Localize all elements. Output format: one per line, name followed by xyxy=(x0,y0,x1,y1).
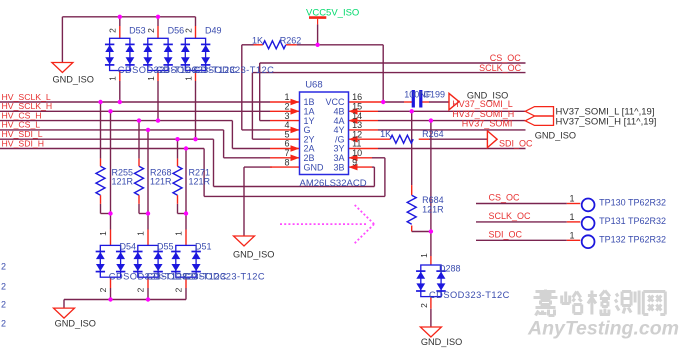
pin number 15 xyxy=(352,102,362,112)
label D54 xyxy=(120,241,137,251)
wire pin 8 GND to symbol xyxy=(244,167,272,236)
svg-text:2: 2 xyxy=(98,287,108,292)
svg-text:U68: U68 xyxy=(305,80,322,91)
label R255 xyxy=(112,168,134,178)
pin 4 stub xyxy=(270,127,300,134)
wire SDI_OC test point xyxy=(476,239,580,241)
wire bottom GND rail drop xyxy=(63,300,65,309)
pin 7 stub xyxy=(270,155,300,162)
pin 2 stub xyxy=(270,108,300,115)
pin 3 stub xyxy=(270,120,300,122)
wire R262 right segment xyxy=(286,44,383,46)
svg-text:1: 1 xyxy=(98,231,108,236)
wire pin 12 R264 right to SDI_OC arrow xyxy=(429,138,487,140)
resistor R268 xyxy=(135,159,144,204)
svg-text:1: 1 xyxy=(569,231,574,241)
pin 10 stub xyxy=(349,155,373,162)
svg-text:2: 2 xyxy=(173,287,183,292)
pin number 4 xyxy=(284,120,289,130)
pin 1 digit bottom diode xyxy=(98,231,108,236)
pin 2 digit top diode xyxy=(146,28,156,33)
test point TP130 circle xyxy=(582,199,595,212)
watermark anytesting xyxy=(527,318,679,340)
net label HV37_SOMI xyxy=(462,118,513,128)
wire pin 16 VCC to C199 xyxy=(381,101,413,103)
watermark chinese xyxy=(534,290,666,316)
wire SCLK_OC down to pin 5 xyxy=(252,73,270,140)
value CDSOD323-T12C D55 xyxy=(146,271,227,281)
wire HV_SDI_H into pin 10 xyxy=(372,157,385,159)
pin name 1A xyxy=(304,107,315,117)
diode D53 xyxy=(105,38,135,70)
diode D55 xyxy=(133,245,163,277)
wire CS_OC test point xyxy=(476,203,580,205)
label 1K R262 xyxy=(252,36,263,46)
svg-text:3B: 3B xyxy=(333,162,344,172)
pin 1 digit top diode xyxy=(146,76,156,81)
svg-text:SDI_OC: SDI_OC xyxy=(499,139,533,149)
label D51 xyxy=(195,241,212,251)
wire R262 left segment xyxy=(242,44,263,46)
svg-text:1: 1 xyxy=(173,231,183,236)
wire top GND rail drop xyxy=(61,17,63,63)
label D53 xyxy=(129,26,146,36)
label GND_ISO top left xyxy=(53,75,94,85)
svg-text:121R: 121R xyxy=(422,204,444,214)
pin number 7 xyxy=(284,148,289,158)
svg-text:VCC5V_ISO: VCC5V_ISO xyxy=(306,8,359,19)
pin 1 label TP131 xyxy=(569,212,574,222)
pin 1 digit bottom diode xyxy=(135,231,145,236)
wire HV_SCLK_L bus row to pin 1 xyxy=(0,101,270,103)
wire SCLK_OC horizontal xyxy=(252,72,525,74)
wire bottom GND rail xyxy=(64,299,186,301)
label 1K R264 xyxy=(380,129,391,139)
svg-text:HV37_SOMI_L: HV37_SOMI_L xyxy=(452,99,513,109)
label GND_ISO floating xyxy=(535,130,576,140)
svg-text:C199: C199 xyxy=(424,90,446,100)
svg-text:2: 2 xyxy=(1,282,6,292)
ground GND_ISO bottom left xyxy=(54,308,75,318)
pin 1 label TP130 xyxy=(569,194,574,204)
pin 1 digit bottom diode xyxy=(173,231,183,236)
port HV37_SOMI_H xyxy=(525,116,553,125)
svg-text:2: 2 xyxy=(108,28,118,33)
wire HV_SDI_L into pin 9 xyxy=(372,166,374,168)
wire HV_SDI_L up to pin 9 xyxy=(373,167,375,186)
svg-text:CS_OC: CS_OC xyxy=(489,193,521,203)
svg-text:D53: D53 xyxy=(129,26,146,36)
label GND_ISO mid xyxy=(233,250,274,260)
svg-text:1: 1 xyxy=(108,76,118,81)
svg-text:HV37_SOMI_H [11^,19]: HV37_SOMI_H [11^,19] xyxy=(556,116,657,127)
label GND_ISO at C199 xyxy=(467,91,508,101)
pin name 4Y xyxy=(333,125,344,135)
svg-text:121R: 121R xyxy=(189,176,211,186)
pin 1 digit top diode xyxy=(183,76,193,81)
pin number 5 xyxy=(284,129,289,139)
value CDSOD323-T12C D51 xyxy=(184,271,265,281)
wire pin 14 HV37_SOMI_H to port xyxy=(378,120,525,122)
svg-text:1: 1 xyxy=(569,194,574,204)
power VCC5V_ISO symbol xyxy=(309,18,326,25)
label D56 xyxy=(168,26,185,36)
port label HV37_SOMI_H xyxy=(556,116,657,127)
pin 1 digit top diode xyxy=(108,76,118,81)
pin number 3 xyxy=(284,111,289,121)
resistor R255 xyxy=(96,159,105,204)
label D288 xyxy=(439,263,461,273)
label D49 xyxy=(205,26,222,36)
resistor R684 xyxy=(407,195,416,224)
wire HV_CS_H vertical jog to pin 6 xyxy=(231,121,233,149)
pin name /G xyxy=(335,134,345,144)
wire VCC5V_ISO drop xyxy=(317,24,319,44)
net label HV_SCLK_H xyxy=(2,101,53,111)
svg-text:121R: 121R xyxy=(150,176,172,186)
pin name VCC xyxy=(325,97,345,107)
wire node to D288 top xyxy=(430,256,432,265)
net label HV_SDI_L xyxy=(2,129,43,139)
wire HV_SDI_H under IC xyxy=(204,195,385,197)
svg-text:D54: D54 xyxy=(120,241,137,251)
value 121R R255 xyxy=(112,176,134,186)
svg-text:GND_ISO: GND_ISO xyxy=(421,337,462,347)
svg-text:D49: D49 xyxy=(205,26,222,36)
net label SDI_OC tp xyxy=(489,230,523,240)
wire node to D54 top xyxy=(110,214,112,246)
value 121R R268 xyxy=(150,176,172,186)
value 121R R271 xyxy=(189,176,211,186)
svg-text:2: 2 xyxy=(1,319,6,329)
net label SCLK_OC upper xyxy=(479,63,522,73)
diode D288 xyxy=(416,265,446,297)
svg-text:D55: D55 xyxy=(157,241,174,251)
wire HV37_SOMI_H down through node xyxy=(430,121,432,256)
pin number 10 xyxy=(352,148,362,158)
net label CS_OC tp xyxy=(489,193,521,203)
svg-text:R264: R264 xyxy=(422,129,444,139)
op-amp U68 body xyxy=(300,92,349,175)
svg-text:2: 2 xyxy=(1,262,6,272)
svg-text:GND: GND xyxy=(304,162,325,172)
svg-text:CDSOD323-T12C: CDSOD323-T12C xyxy=(429,290,510,300)
value CDSOD323-T12C D49 xyxy=(194,65,275,75)
resistor R262 xyxy=(263,41,286,49)
pin number 8 xyxy=(284,157,289,167)
resistor R264 xyxy=(390,135,429,143)
pin 2 digit D288 xyxy=(419,303,429,308)
wire D54 bottom stub xyxy=(110,277,112,299)
test point TP131 circle xyxy=(582,217,595,230)
pin 14 stub xyxy=(349,117,379,124)
label R268 xyxy=(150,168,172,178)
pin number 12 xyxy=(352,129,362,139)
svg-text:TP130 TP62R32: TP130 TP62R32 xyxy=(599,198,666,208)
net label HV_SDI_H xyxy=(2,138,45,148)
label U68 xyxy=(305,80,322,91)
wire R684 bottom stub xyxy=(411,226,413,232)
wire HV_SDI_L bus row xyxy=(0,138,214,140)
wire R271 bottom to node xyxy=(178,204,187,214)
capacitor C199 xyxy=(413,90,421,108)
value CDSOD323-T12C D56 xyxy=(156,65,237,75)
pin number 14 xyxy=(352,111,362,121)
svg-text:GND_ISO: GND_ISO xyxy=(55,318,96,328)
pin name 3B xyxy=(333,162,344,172)
resistor R271 xyxy=(173,159,182,204)
label 100NF C199 xyxy=(404,90,432,100)
pin name 2Y xyxy=(304,134,315,144)
pin 8 stub xyxy=(270,166,300,168)
wire R255 bottom to node xyxy=(101,204,111,214)
svg-text:121R: 121R xyxy=(112,176,134,186)
label R271 xyxy=(189,168,211,178)
svg-text:1: 1 xyxy=(183,76,193,81)
svg-text:CDSOD323-T12C: CDSOD323-T12C xyxy=(194,65,275,75)
wire D51 bottom stub xyxy=(185,277,187,299)
port label HV37_SOMI_L xyxy=(556,107,655,118)
label GND_ISO below D288 xyxy=(421,337,462,347)
label R684 xyxy=(422,195,444,205)
wire tap R268 from HV_CS_H xyxy=(138,121,140,159)
wire HV_SDI_H vertical down xyxy=(203,149,205,197)
svg-text:2: 2 xyxy=(1,300,6,310)
value 121R R684 xyxy=(422,204,444,214)
svg-text:8: 8 xyxy=(284,157,289,167)
label AM26LS32ACD xyxy=(300,178,367,189)
diode D54 xyxy=(96,245,126,277)
svg-text:1: 1 xyxy=(135,231,145,236)
pin 6 stub xyxy=(270,145,300,152)
svg-text:GND_ISO: GND_ISO xyxy=(233,250,274,260)
pin name 4B xyxy=(333,107,344,117)
svg-text:AM26LS32ACD: AM26LS32ACD xyxy=(300,178,367,189)
wire HV_SCLK_H bus row to pin 2 xyxy=(0,110,270,112)
wire HV_CS_H into pin 6 xyxy=(232,148,270,150)
label VCC5V_ISO xyxy=(306,8,359,19)
wire CS_OC down to pin 3 xyxy=(260,63,270,121)
wire tap R255 from HV_SCLK_L xyxy=(100,102,102,159)
diode D56 xyxy=(143,38,173,70)
svg-text:HV37_SOMI_H: HV37_SOMI_H xyxy=(452,109,514,119)
svg-text:GND_ISO: GND_ISO xyxy=(53,75,94,85)
svg-text:D51: D51 xyxy=(195,241,212,251)
net label SCLK_OC tp xyxy=(489,211,532,221)
pin number 13 xyxy=(352,120,362,130)
net label HV_CS_L xyxy=(2,120,41,130)
wire D49 top stub xyxy=(195,17,197,39)
svg-text:D56: D56 xyxy=(168,26,185,36)
wire HV_SDI_L under IC xyxy=(214,186,375,188)
svg-text:GND_ISO: GND_ISO xyxy=(535,130,576,140)
stray pin digit 2 xyxy=(1,282,6,292)
pin name 1B xyxy=(304,97,315,107)
pin name 3A xyxy=(333,153,344,163)
pin 2 digit top diode xyxy=(183,28,193,33)
svg-text:CS_OC: CS_OC xyxy=(490,53,522,63)
wire C199 to GND arrow xyxy=(421,101,449,103)
net label SDI_OC mid xyxy=(499,139,533,149)
svg-text:SDI_OC: SDI_OC xyxy=(489,230,523,240)
stray pin digit 2 xyxy=(1,319,6,329)
wire HV_SDI_L vertical down xyxy=(213,139,215,186)
svg-text:1: 1 xyxy=(419,253,429,258)
pin name GND xyxy=(304,162,325,172)
label C199 xyxy=(424,90,446,100)
svg-text:2: 2 xyxy=(146,28,156,33)
wire top GND rail xyxy=(62,16,195,18)
pin 13 stub xyxy=(349,129,379,131)
svg-text:AnyTesting.com: AnyTesting.com xyxy=(527,318,679,340)
svg-text:9: 9 xyxy=(352,157,357,167)
diode D51 xyxy=(171,245,201,277)
svg-text:HV_SDI_H: HV_SDI_H xyxy=(2,138,45,148)
wire tap D55 from HV_CS_L xyxy=(147,130,149,214)
wire HV_SDI_H bus row xyxy=(0,148,204,150)
svg-text:TP132 TP62R32: TP132 TP62R32 xyxy=(599,235,666,245)
wire D53 top stub xyxy=(119,17,121,39)
pin number 1 xyxy=(284,92,289,102)
ground GND_ISO arrow after C199 xyxy=(449,93,459,109)
pin 2 digit top diode xyxy=(108,28,118,33)
pin name 4A xyxy=(333,116,344,126)
pin number 16 xyxy=(352,92,362,102)
svg-text:1: 1 xyxy=(569,212,574,222)
wire tap D51 from HV_SDI_H xyxy=(185,149,187,214)
svg-text:1K: 1K xyxy=(252,36,263,46)
net label HV_CS_H xyxy=(2,110,42,120)
pin number 9 xyxy=(352,157,357,167)
wire tap R271 from HV_SDI_L xyxy=(177,139,179,158)
wire D49 bottom to HV_SDI_L xyxy=(195,71,197,140)
pin number 2 xyxy=(284,102,289,112)
diode D49 xyxy=(181,38,211,70)
label D55 xyxy=(157,241,174,251)
svg-text:2: 2 xyxy=(183,28,193,33)
wire pin 13 HV37_SOMI xyxy=(378,129,526,131)
label TP131 TP62R32 xyxy=(599,216,666,226)
test point TP132 circle xyxy=(582,235,595,248)
wire R684 bottom to node xyxy=(412,231,431,233)
pin name 1Y xyxy=(304,116,315,126)
svg-text:D288: D288 xyxy=(439,263,461,273)
stray pin digit 2 xyxy=(1,300,6,310)
pin 1 digit D288 xyxy=(419,253,429,258)
wire HV_CS_L into pin 7 xyxy=(224,157,270,159)
wire R262 net down to pin 4 xyxy=(242,45,270,130)
wire HV37_SOMI_L down to R684 xyxy=(411,111,413,185)
stray pin digit 2 xyxy=(1,262,6,272)
svg-text:SCLK_OC: SCLK_OC xyxy=(489,211,532,221)
wire D288 bottom stub xyxy=(430,297,432,327)
wire pin 15 HV37_SOMI_L to port xyxy=(378,110,525,112)
pin number 6 xyxy=(284,139,289,149)
wire VCC branch down to pin 16 xyxy=(382,45,384,102)
wire D53 bottom to HV_SCLK_L xyxy=(119,71,121,103)
pin 2 digit bottom diode xyxy=(98,287,108,292)
net label HV37_SOMI_H xyxy=(452,109,514,119)
pin 9 stub xyxy=(349,164,373,171)
ground GND_ISO top left xyxy=(52,63,73,73)
wire CS_OC horizontal xyxy=(260,62,526,64)
wire HV_CS_H bus row xyxy=(0,120,232,122)
wire HV_CS_L bus row xyxy=(0,129,224,131)
svg-text:1: 1 xyxy=(146,76,156,81)
svg-text:1K: 1K xyxy=(380,129,391,139)
value CDSOD323-T12C D288 xyxy=(429,290,510,300)
wire D56 bottom to HV_CS_H xyxy=(157,71,159,121)
label R264 xyxy=(422,129,444,139)
port HV37_SOMI_L xyxy=(525,107,553,116)
pin 2 digit bottom diode xyxy=(135,287,145,292)
svg-text:2: 2 xyxy=(419,303,429,308)
svg-text:SCLK_OC: SCLK_OC xyxy=(479,63,522,73)
ground GND_ISO below pin 8 xyxy=(234,236,255,246)
net label HV_SCLK_L xyxy=(2,92,51,102)
wire node to D51 top xyxy=(185,214,187,246)
wire D55 bottom stub xyxy=(147,277,149,299)
dashed arrow xyxy=(280,205,374,243)
svg-text:R262: R262 xyxy=(280,36,302,46)
wire SCLK_OC test point xyxy=(476,221,580,223)
pin 1 label TP132 xyxy=(569,231,574,241)
wire D56 top stub xyxy=(157,17,159,39)
pin name 2A xyxy=(304,144,315,154)
pin name 2B xyxy=(304,153,315,163)
value CDSOD323-T12C D53 xyxy=(118,65,199,75)
net label CS_OC upper xyxy=(490,53,522,63)
wire HV_CS_L vertical jog to pin 7 xyxy=(223,130,225,158)
label TP130 TP62R32 xyxy=(599,198,666,208)
label R262 xyxy=(280,36,302,46)
svg-text:2: 2 xyxy=(135,287,145,292)
pin 16 stub xyxy=(349,101,382,103)
ground GND_ISO below D288 xyxy=(420,327,441,337)
net label HV37_SOMI_L xyxy=(452,99,513,109)
svg-text:HV37_SOMI: HV37_SOMI xyxy=(462,118,513,128)
pin 15 stub xyxy=(349,108,379,115)
pin number 11 xyxy=(352,139,361,149)
pin name 3Y xyxy=(333,144,344,154)
svg-text:CDSOD323-T12C: CDSOD323-T12C xyxy=(184,271,265,281)
svg-text:TP131 TP62R32: TP131 TP62R32 xyxy=(599,216,666,226)
wire R268 bottom to node xyxy=(139,204,148,214)
label TP132 TP62R32 xyxy=(599,235,666,245)
pin 11 stub xyxy=(349,148,379,150)
wire node to D55 top xyxy=(147,214,149,246)
net SDI_OC arrow xyxy=(487,131,497,148)
pin 2 digit bottom diode xyxy=(173,287,183,292)
wire R684 top stub xyxy=(411,185,413,195)
wire tap D54 from HV_SCLK_H xyxy=(110,111,112,213)
pin 12 stub xyxy=(349,136,391,143)
wire HV_SDI_H up to pin 10 xyxy=(384,158,386,197)
pin name G xyxy=(304,125,311,135)
pin 5 stub xyxy=(270,138,300,140)
value CDSOD323-T12C D54 xyxy=(109,271,190,281)
pin 1 stub xyxy=(270,99,300,106)
label GND_ISO bottom left xyxy=(55,318,96,328)
wire pin 11 3Y stub xyxy=(378,148,526,150)
